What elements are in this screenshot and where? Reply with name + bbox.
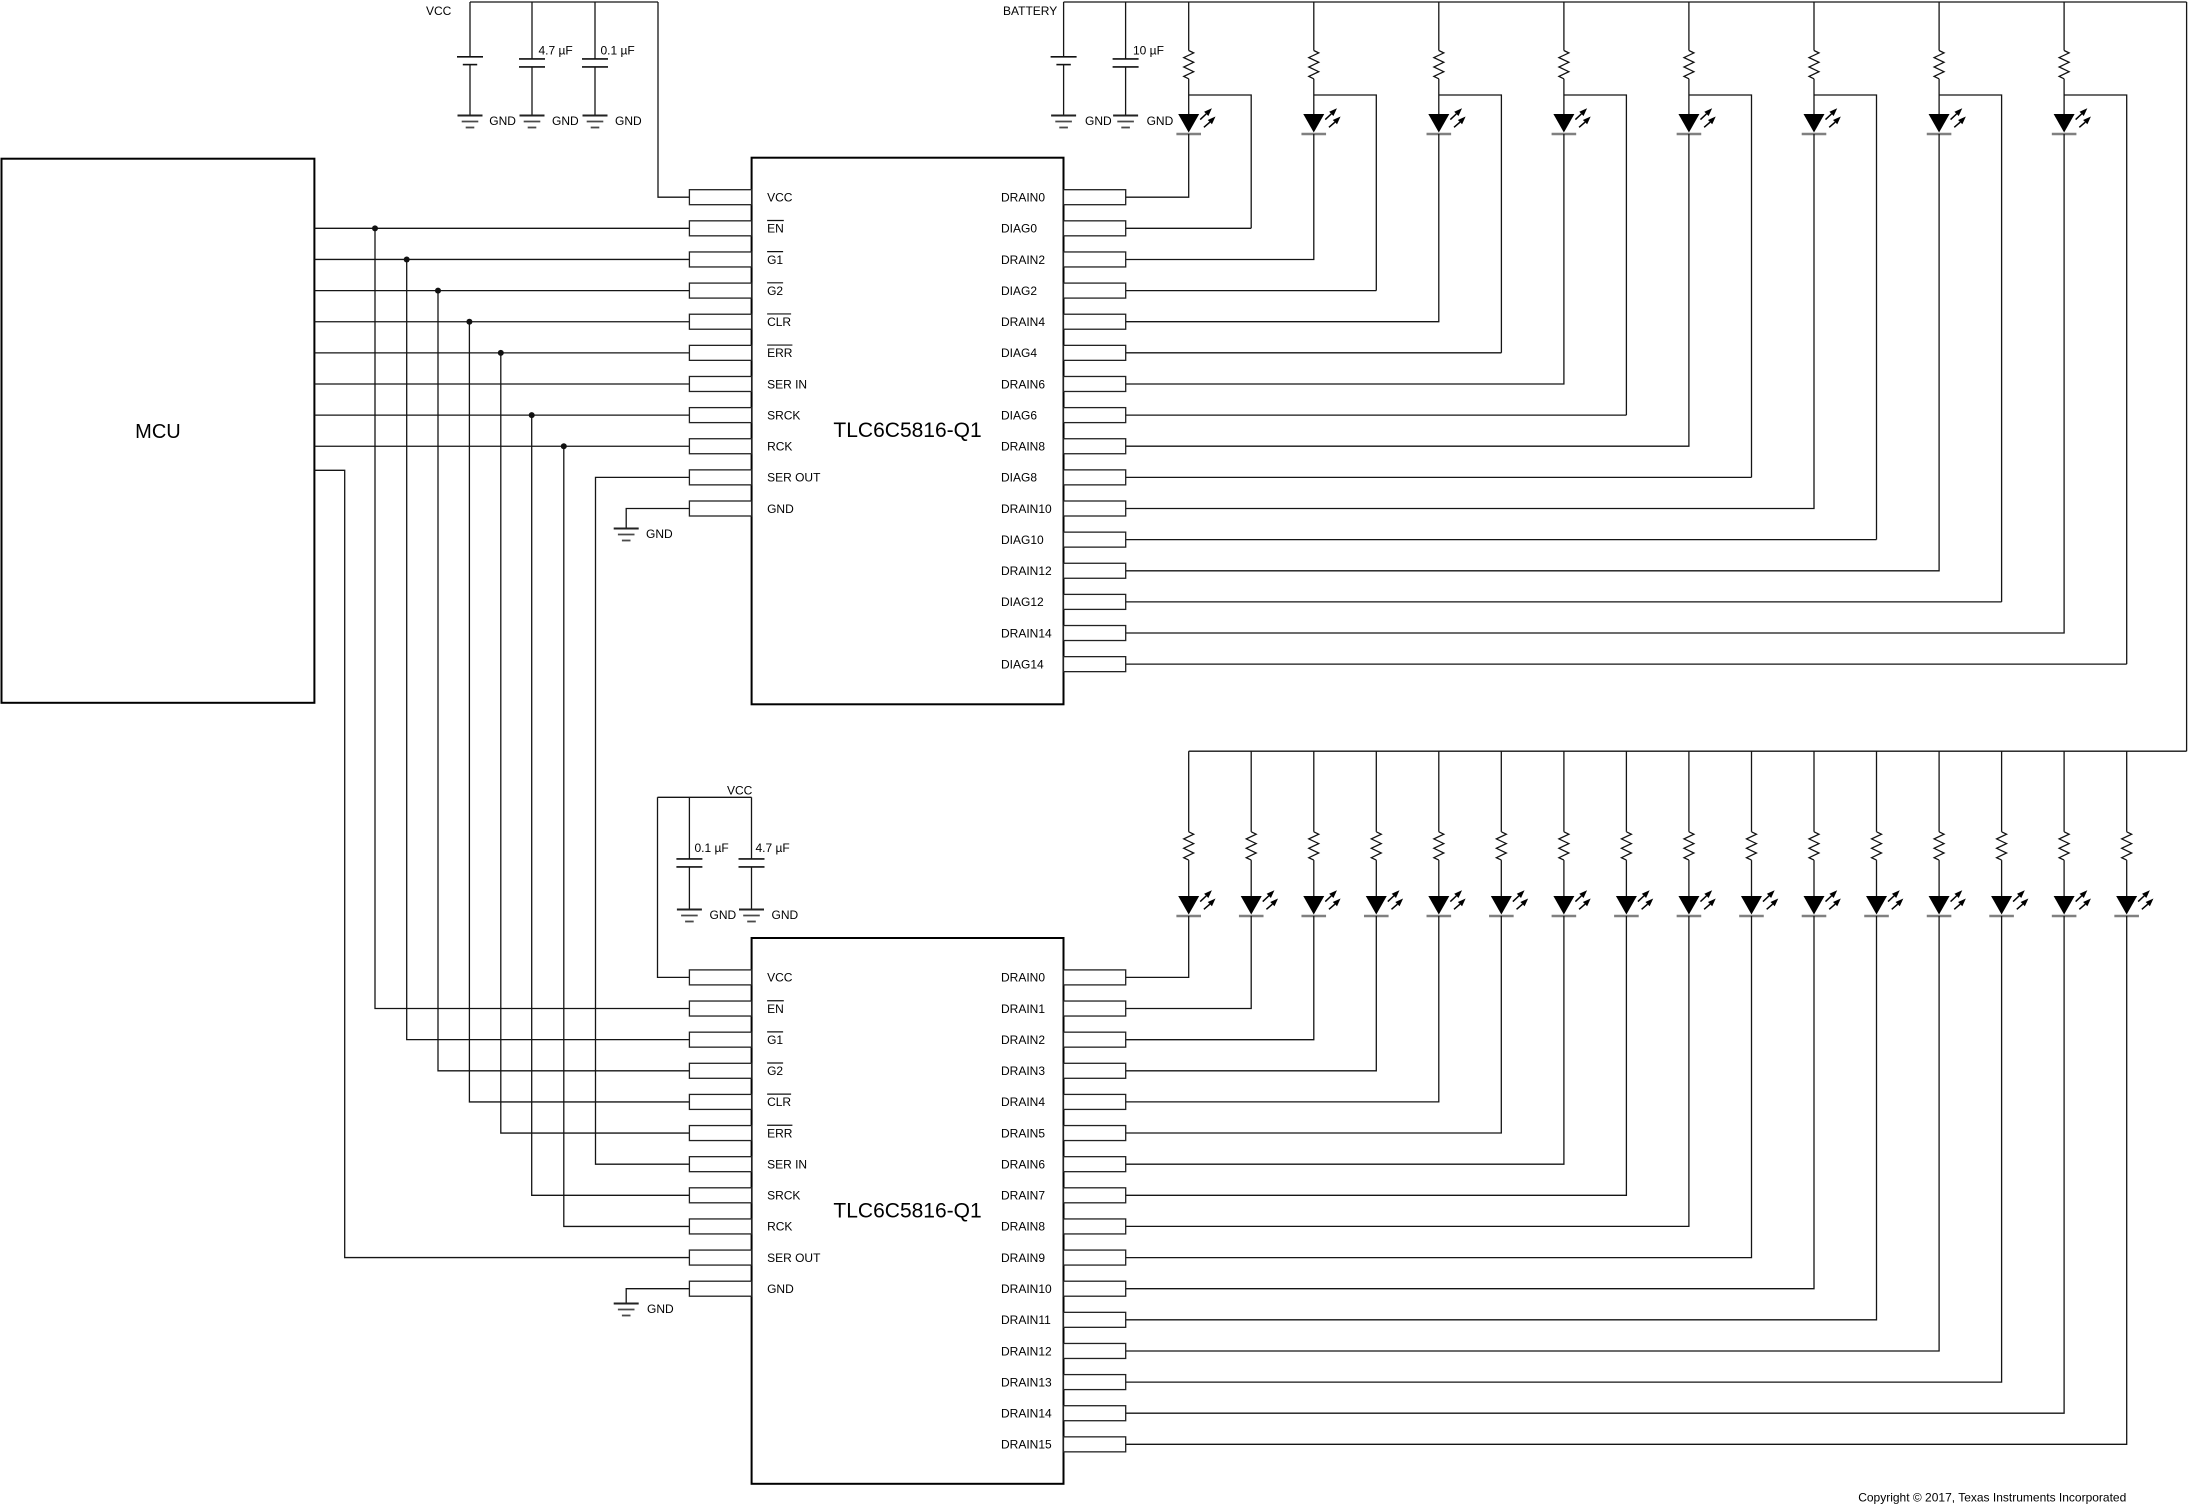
svg-text:DRAIN0: DRAIN0: [1001, 971, 1045, 985]
svg-text:SRCK: SRCK: [767, 408, 800, 422]
LED D14: [1489, 890, 1528, 916]
U1 pin DIAG10: [1001, 532, 1126, 547]
junction dot ERR net: [498, 350, 504, 356]
wire VCC rail drop to U1 VCC pin: [658, 2, 689, 197]
U1 pin VCC: [689, 190, 792, 205]
svg-text:GND: GND: [646, 527, 673, 541]
svg-text:GND: GND: [1085, 114, 1112, 128]
battery BT1 (VCC source): [457, 57, 483, 65]
junction dot G1 net: [404, 256, 410, 262]
wire bottom rail to resistor R19: [1813, 751, 1815, 832]
junction dot EN net: [372, 225, 378, 231]
svg-text:RCK: RCK: [767, 1220, 792, 1234]
junction dot RCK net: [561, 443, 567, 449]
svg-text:VCC: VCC: [767, 971, 793, 985]
wire LED D11 cathode to U2 DRAIN2: [1126, 916, 1314, 1040]
wire resistor R1 to LED D1 anode: [1188, 79, 1190, 114]
LED D4: [1552, 108, 1591, 134]
wire LED D16 cathode to U2 DRAIN7: [1126, 916, 1627, 1195]
svg-text:VCC: VCC: [426, 4, 452, 18]
resistor R15 (LED D15 ballast): [1559, 832, 1569, 860]
svg-text:ERR: ERR: [767, 1126, 793, 1140]
wire resistor R12 to LED D12 anode: [1375, 860, 1377, 896]
junction dot G2 net: [435, 288, 441, 294]
U2 pin EN: [689, 1001, 783, 1016]
U1 pin DIAG14: [1001, 657, 1126, 672]
svg-text:DIAG6: DIAG6: [1001, 408, 1037, 422]
svg-text:DRAIN3: DRAIN3: [1001, 1064, 1045, 1078]
svg-text:DRAIN7: DRAIN7: [1001, 1189, 1045, 1203]
U1 pin DIAG12: [1001, 594, 1126, 609]
resistor R1 (LED D1 ballast): [1184, 51, 1194, 79]
wire bottom rail to resistor R12: [1375, 751, 1377, 832]
resistor R8 (LED D8 ballast): [2059, 51, 2069, 79]
wire BATTERY rail to resistor R7: [1938, 2, 1940, 51]
LED D16: [1614, 890, 1653, 916]
svg-text:Copyright © 2017, Texas Instru: Copyright © 2017, Texas Instruments Inco…: [1858, 1491, 2126, 1505]
U2 pin DRAIN14: [1001, 1406, 1126, 1421]
U2 pin SER IN: [689, 1157, 807, 1172]
U1 pin EN: [689, 221, 783, 236]
wire DIAG14 sense from D8 anode node: [2064, 95, 2127, 664]
resistor R18 (LED D18 ballast): [1746, 832, 1756, 860]
svg-text:10 µF: 10 µF: [1133, 44, 1164, 58]
wire resistor R22 to LED D22 anode: [2001, 860, 2003, 896]
ground (below BT1): [458, 116, 483, 128]
U2 pin G1: [689, 1032, 783, 1047]
capacitor C5 4.7uF: [739, 859, 765, 867]
wire BATTERY rail to resistor R1: [1188, 2, 1190, 51]
svg-text:VCC: VCC: [767, 191, 793, 205]
wire capacitor C1 bottom lead to ground: [531, 67, 533, 116]
wire resistor R4 to LED D4 anode: [1563, 79, 1565, 114]
U1 pin SER OUT: [689, 470, 821, 485]
U1 pin DRAIN4: [1001, 314, 1126, 329]
svg-text:MCU: MCU: [135, 421, 181, 443]
LED D3: [1427, 108, 1466, 134]
svg-text:DRAIN6: DRAIN6: [1001, 1157, 1045, 1171]
wire resistor R13 to LED D13 anode: [1438, 860, 1440, 896]
wire DIAG6 sense from D4 anode node: [1564, 95, 1627, 415]
svg-text:TLC6C5816-Q1: TLC6C5816-Q1: [833, 1199, 981, 1222]
svg-text:ERR: ERR: [767, 346, 793, 360]
LED D5: [1677, 108, 1716, 134]
svg-text:DIAG14: DIAG14: [1001, 657, 1044, 671]
wire LED D12 cathode to U2 DRAIN3: [1126, 916, 1377, 1071]
wire LED D6 cathode to U1 DRAIN10: [1126, 134, 1814, 509]
resistor R22 (LED D22 ballast): [1997, 832, 2007, 860]
wire bottom rail to resistor R14: [1500, 751, 1502, 832]
svg-text:DRAIN15: DRAIN15: [1001, 1438, 1052, 1452]
wire ERR net MCU to U1: [314, 352, 689, 354]
LED D15: [1552, 890, 1591, 916]
svg-text:SER OUT: SER OUT: [767, 1251, 821, 1265]
wire LED D19 cathode to U2 DRAIN10: [1126, 916, 1814, 1289]
wire resistor R16 to LED D16 anode: [1625, 860, 1627, 896]
svg-text:DRAIN5: DRAIN5: [1001, 1126, 1045, 1140]
wire LED D21 cathode to U2 DRAIN12: [1126, 916, 1939, 1351]
svg-text:DIAG2: DIAG2: [1001, 284, 1037, 298]
svg-text:CLR: CLR: [767, 1095, 791, 1109]
svg-text:DRAIN2: DRAIN2: [1001, 253, 1045, 267]
capacitor C2 0.1uF: [582, 59, 608, 67]
svg-text:G1: G1: [767, 1033, 783, 1047]
op-amp U1 TLC6C5816-Q1 (top LED driver IC body): [752, 158, 1064, 705]
svg-text:EN: EN: [767, 1002, 784, 1016]
U1 pin G2: [689, 283, 783, 298]
svg-text:GND: GND: [767, 1282, 794, 1296]
wire ERR branch down to U2: [501, 353, 690, 1133]
svg-text:EN: EN: [767, 222, 784, 236]
LED D22: [1989, 890, 2028, 916]
svg-text:RCK: RCK: [767, 440, 792, 454]
wire resistor R18 to LED D18 anode: [1751, 860, 1753, 896]
wire DIAG4 to U1 pin: [1126, 352, 1502, 354]
resistor R3 (LED D3 ballast): [1434, 51, 1444, 79]
wire VCC rail drop to U2 VCC pin: [658, 797, 690, 977]
U2 pin DRAIN0: [1001, 970, 1126, 985]
wire U1 SER OUT to U2 SER IN: [596, 477, 690, 1164]
U1 pin DRAIN0: [1001, 190, 1126, 205]
wire LED D5 cathode to U1 DRAIN8: [1126, 134, 1689, 446]
LED D20: [1864, 890, 1903, 916]
svg-text:SER IN: SER IN: [767, 1157, 807, 1171]
wire SRCK branch down to U2: [532, 415, 690, 1195]
svg-text:GND: GND: [1147, 114, 1174, 128]
resistor R13 (LED D13 ballast): [1434, 832, 1444, 860]
U2 pin DRAIN12: [1001, 1343, 1126, 1358]
svg-text:VCC: VCC: [727, 784, 753, 798]
wire resistor R20 to LED D20 anode: [1876, 860, 1878, 896]
wire LED D4 cathode to U1 DRAIN6: [1126, 134, 1564, 384]
wire LED D8 cathode to U1 DRAIN14: [1126, 134, 2064, 633]
svg-text:GND: GND: [552, 114, 579, 128]
wire EN branch down to U2: [375, 228, 689, 1008]
wire LED D10 cathode to U2 DRAIN1: [1126, 916, 1252, 1009]
wire resistor R14 to LED D14 anode: [1500, 860, 1502, 896]
svg-text:G2: G2: [767, 1064, 783, 1078]
wire BATTERY rail to resistor R3: [1438, 2, 1440, 51]
svg-text:DRAIN4: DRAIN4: [1001, 315, 1045, 329]
wire LED D7 cathode to U1 DRAIN12: [1126, 134, 1939, 571]
LED D24: [2114, 890, 2153, 916]
resistor R4 (LED D4 ballast): [1559, 51, 1569, 79]
U2 pin DRAIN5: [1001, 1126, 1126, 1141]
wire G1 net MCU to U1: [314, 258, 689, 260]
svg-text:DRAIN11: DRAIN11: [1001, 1313, 1051, 1327]
MCU block: [2, 159, 315, 703]
U1 pin RCK: [689, 439, 792, 454]
wire LED D9 cathode to U2 DRAIN0: [1126, 916, 1189, 977]
wire resistor R7 to LED D7 anode: [1938, 79, 1940, 114]
svg-text:SRCK: SRCK: [767, 1189, 800, 1203]
svg-text:SER OUT: SER OUT: [767, 471, 821, 485]
wire capacitor C1 top lead: [531, 2, 533, 59]
svg-text:4.7 µF: 4.7 µF: [756, 841, 790, 855]
wire resistor R24 to LED D24 anode: [2126, 860, 2128, 896]
wire resistor R11 to LED D11 anode: [1313, 860, 1315, 896]
U2 pin DRAIN9: [1001, 1250, 1126, 1265]
resistor R17 (LED D17 ballast): [1684, 832, 1694, 860]
svg-text:GND: GND: [615, 114, 642, 128]
U2 pin DRAIN15: [1001, 1437, 1126, 1452]
LED D2: [1301, 108, 1340, 134]
U2 pin CLR: [689, 1094, 791, 1109]
wire LED D14 cathode to U2 DRAIN5: [1126, 916, 1502, 1133]
resistor R12 (LED D12 ballast): [1371, 832, 1381, 860]
U1 pin DIAG4: [1001, 345, 1126, 360]
wire resistor R9 to LED D9 anode: [1188, 860, 1190, 896]
LED D19: [1802, 890, 1841, 916]
svg-text:DRAIN2: DRAIN2: [1001, 1033, 1045, 1047]
resistor R19 (LED D19 ballast): [1809, 832, 1819, 860]
svg-text:GND: GND: [772, 908, 799, 922]
wire VCC rail (U2 supply): [658, 796, 752, 798]
wire resistor R6 to LED D6 anode: [1813, 79, 1815, 114]
U1 pin CLR: [689, 314, 791, 329]
wire bottom rail to resistor R23: [2063, 751, 2065, 832]
wire U1 GND pin to ground: [626, 509, 689, 529]
wire DIAG4 sense from D3 anode node: [1439, 95, 1502, 353]
U1 pin DRAIN10: [1001, 501, 1126, 516]
wire DIAG12 sense from D7 anode node: [1939, 95, 2002, 602]
wire BATTERY rail to resistor R2: [1313, 2, 1315, 51]
wire resistor R23 to LED D23 anode: [2063, 860, 2065, 896]
capacitor C1 4.7uF: [519, 59, 545, 67]
svg-text:DRAIN12: DRAIN12: [1001, 1344, 1052, 1358]
wire capacitor C2 top lead: [594, 2, 596, 59]
capacitor C4 0.1uF: [676, 859, 702, 867]
svg-text:DRAIN4: DRAIN4: [1001, 1095, 1045, 1109]
wire BATTERY rail to resistor R6: [1813, 2, 1815, 51]
wire capacitor C4 top lead: [688, 797, 690, 859]
wire resistor R21 to LED D21 anode: [1938, 860, 1940, 896]
svg-text:0.1 µF: 0.1 µF: [601, 44, 635, 58]
U2 pin DRAIN10: [1001, 1281, 1126, 1296]
svg-text:DIAG8: DIAG8: [1001, 471, 1037, 485]
svg-text:GND: GND: [647, 1302, 674, 1316]
svg-text:DRAIN9: DRAIN9: [1001, 1251, 1045, 1265]
wire G2 net MCU to U1: [314, 290, 689, 292]
ground (U2 GND pin): [614, 1304, 639, 1316]
U2 pin DRAIN8: [1001, 1219, 1126, 1234]
wire CLR net MCU to U1: [314, 321, 689, 323]
svg-text:0.1 µF: 0.1 µF: [695, 841, 729, 855]
resistor R23 (LED D23 ballast): [2059, 832, 2069, 860]
U2 pin G2: [689, 1063, 783, 1078]
wire bottom rail to resistor R17: [1688, 751, 1690, 832]
wire battery BT2 top lead: [1063, 2, 1065, 57]
svg-text:DRAIN6: DRAIN6: [1001, 377, 1045, 391]
U1 pin DRAIN12: [1001, 563, 1126, 578]
LED D6: [1802, 108, 1841, 134]
junction dot CLR net: [466, 319, 472, 325]
wire bottom rail to resistor R11: [1313, 751, 1315, 832]
resistor R24 (LED D24 ballast): [2122, 832, 2132, 860]
U2 pin DRAIN11: [1001, 1312, 1126, 1327]
wire bottom rail to resistor R24: [2126, 751, 2128, 832]
U1 pin DRAIN14: [1001, 626, 1126, 641]
U1 pin SER IN: [689, 376, 807, 391]
U1 pin ERR: [689, 345, 792, 360]
wire DIAG14 to U1 pin: [1126, 663, 2127, 665]
LED D8: [2052, 108, 2091, 134]
svg-text:GND: GND: [489, 114, 516, 128]
capacitor C3 10uF: [1113, 59, 1139, 67]
U2 pin DRAIN7: [1001, 1188, 1126, 1203]
ground (below C4): [677, 910, 702, 922]
wire G1 branch down to U2: [407, 259, 690, 1039]
LED D1: [1176, 108, 1215, 134]
wire capacitor C5 top lead: [751, 797, 753, 859]
wire EN net MCU to U1: [314, 227, 689, 229]
wire DIAG2 to U1 pin: [1126, 290, 1377, 292]
U2 pin DRAIN2: [1001, 1032, 1126, 1047]
wire LED D2 cathode to U1 DRAIN2: [1126, 134, 1314, 260]
svg-text:DRAIN10: DRAIN10: [1001, 1282, 1052, 1296]
U1 pin DIAG2: [1001, 283, 1126, 298]
wire G2 branch down to U2: [438, 291, 689, 1071]
resistor R20 (LED D20 ballast): [1872, 832, 1882, 860]
wire DIAG10 sense from D6 anode node: [1814, 95, 1877, 540]
wire U2 GND pin to ground: [626, 1289, 689, 1304]
wire resistor R15 to LED D15 anode: [1563, 860, 1565, 896]
resistor R5 (LED D5 ballast): [1684, 51, 1694, 79]
svg-text:GND: GND: [767, 502, 794, 516]
U1 pin DIAG8: [1001, 470, 1126, 485]
wire LED D1 cathode to U1 DRAIN0: [1126, 134, 1189, 197]
wire DIAG10 to U1 pin: [1126, 539, 1877, 541]
wire RCK net MCU to U1: [314, 445, 689, 447]
wire SRCK net MCU to U1: [314, 414, 689, 416]
wire resistor R8 to LED D8 anode: [2063, 79, 2065, 114]
wire LED D15 cathode to U2 DRAIN6: [1126, 916, 1564, 1164]
U2 pin ERR: [689, 1125, 792, 1140]
U2 pin VCC: [689, 970, 792, 985]
wire BATTERY rail (top): [1064, 1, 2187, 3]
U1 pin DIAG0: [1001, 221, 1126, 236]
wire BATTERY rail right-edge drop: [2186, 2, 2188, 751]
ground (below C1): [520, 116, 545, 128]
wire DIAG0 to U1 pin: [1126, 227, 1252, 229]
resistor R7 (LED D7 ballast): [1934, 51, 1944, 79]
wire LED D20 cathode to U2 DRAIN11: [1126, 916, 1877, 1320]
wire capacitor C5 bottom lead to ground: [751, 867, 753, 910]
wire DIAG2 sense from D2 anode node: [1314, 95, 1377, 291]
wire SER IN net MCU to U1: [314, 383, 689, 385]
wire LED D18 cathode to U2 DRAIN9: [1126, 916, 1752, 1258]
svg-text:BATTERY: BATTERY: [1003, 4, 1057, 18]
svg-text:TLC6C5816-Q1: TLC6C5816-Q1: [833, 419, 981, 442]
resistor R14 (LED D14 ballast): [1496, 832, 1506, 860]
wire resistor R19 to LED D19 anode: [1813, 860, 1815, 896]
svg-text:DRAIN8: DRAIN8: [1001, 1220, 1045, 1234]
svg-text:DRAIN14: DRAIN14: [1001, 1407, 1052, 1421]
wire resistor R5 to LED D5 anode: [1688, 79, 1690, 114]
U2 pin SER OUT: [689, 1250, 821, 1265]
resistor R16 (LED D16 ballast): [1621, 832, 1631, 860]
wire battery BT1 bottom lead to ground: [469, 65, 471, 116]
svg-text:SER IN: SER IN: [767, 377, 807, 391]
wire BATTERY rail to resistor R8: [2063, 2, 2065, 51]
wire BATTERY rail (bottom LED bank): [1189, 750, 2187, 752]
svg-text:4.7 µF: 4.7 µF: [539, 44, 573, 58]
LED D21: [1927, 890, 1966, 916]
U2 pin GND: [689, 1281, 794, 1296]
svg-text:DRAIN8: DRAIN8: [1001, 440, 1045, 454]
resistor R11 (LED D11 ballast): [1309, 832, 1319, 860]
U1 pin DRAIN2: [1001, 252, 1126, 267]
wire U2 SER OUT return to MCU: [314, 470, 689, 1257]
wire capacitor C4 bottom lead to ground: [688, 867, 690, 910]
svg-text:G2: G2: [767, 284, 783, 298]
U2 pin DRAIN13: [1001, 1375, 1126, 1390]
wire LED D13 cathode to U2 DRAIN4: [1126, 916, 1439, 1102]
wire BATTERY rail to resistor R5: [1688, 2, 1690, 51]
wire LED D23 cathode to U2 DRAIN14: [1126, 916, 2064, 1413]
wire DIAG0 sense from D1 anode node: [1189, 95, 1252, 228]
svg-text:DRAIN10: DRAIN10: [1001, 502, 1052, 516]
wire VCC rail (top-left): [470, 1, 658, 3]
wire resistor R2 to LED D2 anode: [1313, 79, 1315, 114]
battery BT2 (BATTERY source): [1051, 57, 1077, 65]
wire bottom rail to resistor R15: [1563, 751, 1565, 832]
wire DIAG8 to U1 pin: [1126, 476, 1752, 478]
wire BATTERY rail to resistor R4: [1563, 2, 1565, 51]
wire bottom rail to resistor R18: [1751, 751, 1753, 832]
resistor R9 (LED D9 ballast): [1184, 832, 1194, 860]
LED D11: [1301, 890, 1340, 916]
wire bottom rail to resistor R21: [1938, 751, 1940, 832]
U2 pin DRAIN3: [1001, 1063, 1126, 1078]
wire resistor R10 to LED D10 anode: [1250, 860, 1252, 896]
junction dot SRCK net: [529, 412, 535, 418]
svg-text:DRAIN13: DRAIN13: [1001, 1375, 1052, 1389]
U1 pin DRAIN6: [1001, 376, 1126, 391]
svg-text:DRAIN14: DRAIN14: [1001, 626, 1052, 640]
U2 pin DRAIN4: [1001, 1094, 1126, 1109]
wire resistor R17 to LED D17 anode: [1688, 860, 1690, 896]
svg-text:DIAG4: DIAG4: [1001, 346, 1037, 360]
wire capacitor C3 top lead: [1125, 2, 1127, 59]
ground (U1 GND pin): [614, 529, 639, 541]
svg-text:DRAIN0: DRAIN0: [1001, 191, 1045, 205]
LED D23: [2052, 890, 2091, 916]
wire battery BT2 bottom lead to ground: [1063, 65, 1065, 116]
wire bottom rail to resistor R9: [1188, 751, 1190, 832]
ground (below BT2): [1051, 116, 1076, 128]
wire LED D22 cathode to U2 DRAIN13: [1126, 916, 2002, 1382]
wire bottom rail to resistor R16: [1625, 751, 1627, 832]
U1 pin GND: [689, 501, 794, 516]
LED D9: [1176, 890, 1215, 916]
LED D17: [1677, 890, 1716, 916]
U1 pin G1: [689, 252, 783, 267]
wire bottom rail to resistor R22: [2001, 751, 2003, 832]
LED D10: [1239, 890, 1278, 916]
wire capacitor C3 bottom lead to ground: [1125, 67, 1127, 116]
wire capacitor C2 bottom lead to ground: [594, 67, 596, 116]
resistor R6 (LED D6 ballast): [1809, 51, 1819, 79]
wire LED D24 cathode to U2 DRAIN15: [1126, 916, 2127, 1444]
op-amp U2 TLC6C5816-Q1 (bottom LED driver IC body): [752, 938, 1064, 1484]
U2 pin SRCK: [689, 1188, 800, 1203]
wire resistor R3 to LED D3 anode: [1438, 79, 1440, 114]
svg-text:DRAIN12: DRAIN12: [1001, 564, 1052, 578]
LED D13: [1427, 890, 1466, 916]
ground (below C5): [739, 910, 764, 922]
U2 pin DRAIN1: [1001, 1001, 1126, 1016]
